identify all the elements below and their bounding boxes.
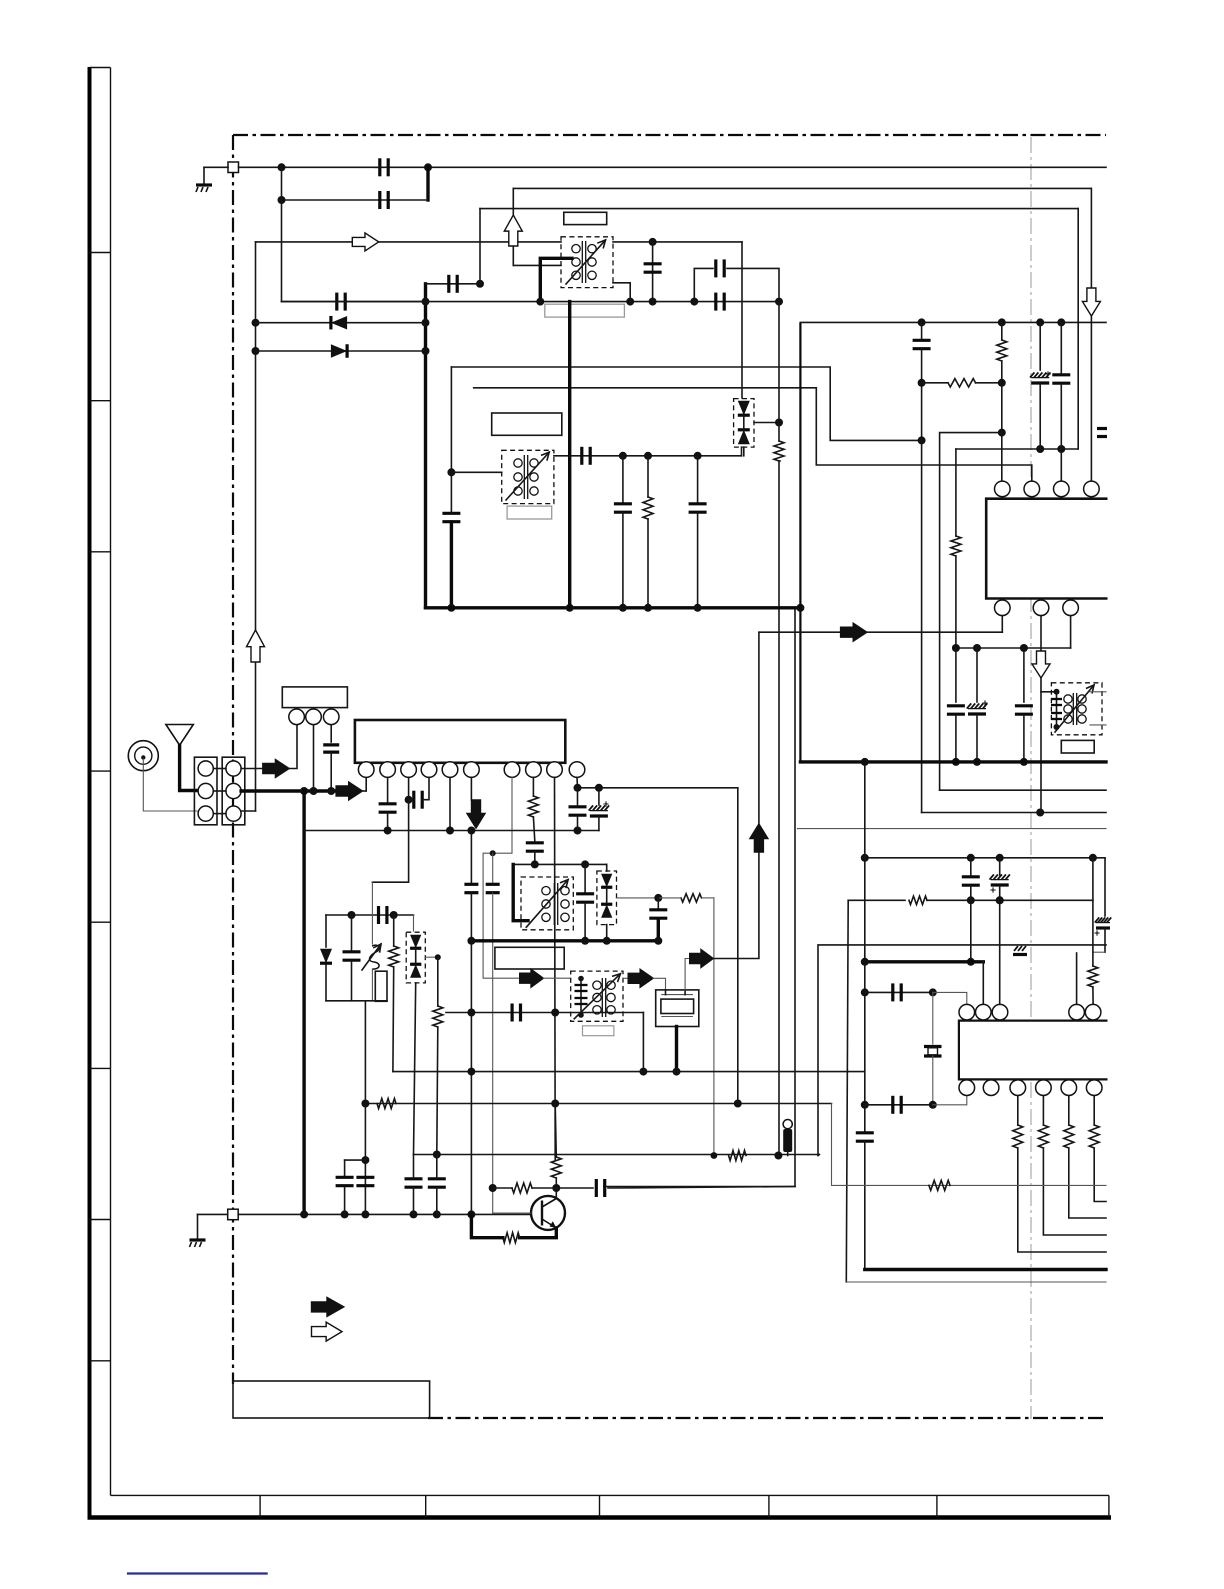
- pin CN2 pin: [226, 761, 241, 776]
- wire: [330, 725, 332, 742]
- IC U3 (stereo decoder, clipped): [959, 1021, 1108, 1080]
- junction: [476, 280, 484, 288]
- junction: [1054, 689, 1060, 695]
- junction: [967, 958, 975, 966]
- junction: [578, 1012, 584, 1018]
- wire: [1023, 715, 1025, 762]
- wire: [281, 167, 283, 301]
- wire: [282, 199, 426, 201]
- capacitor C5: [716, 293, 724, 311]
- wire (bus A): [451, 367, 921, 440]
- wire (coax to jack): [143, 759, 197, 811]
- signal arrow (open, down): [1082, 288, 1100, 316]
- legend arrow (filled): [312, 1297, 344, 1316]
- wire: [955, 715, 957, 762]
- junction: [310, 787, 318, 795]
- wire: [976, 382, 1002, 384]
- pin U3 top pin: [1085, 1004, 1101, 1020]
- diode D4: [738, 430, 750, 444]
- wire: [364, 1001, 366, 1214]
- resistor R6: [528, 796, 538, 817]
- pin U2 top pin: [1084, 481, 1100, 497]
- junction: [998, 379, 1006, 387]
- wire: [351, 961, 353, 1001]
- wire: [685, 959, 690, 990]
- wire: [313, 725, 315, 791]
- capacitor C31: [575, 985, 588, 991]
- wire: [955, 556, 957, 647]
- junction: [422, 347, 430, 355]
- wire: [512, 188, 514, 265]
- wire: [741, 447, 743, 456]
- junction: [467, 1009, 475, 1017]
- wire (thick vertical): [426, 167, 429, 200]
- wire: [1076, 953, 1078, 1004]
- transformer T1 windings (secondary): [588, 245, 596, 280]
- wire (IF): [554, 455, 742, 457]
- signal arrow (filled): [520, 969, 544, 987]
- wire: [436, 1155, 438, 1179]
- junction: [998, 318, 1006, 326]
- wire (rail): [922, 812, 1106, 814]
- junction: [552, 1184, 560, 1192]
- diode D9: [601, 904, 612, 918]
- signal arrow (filled): [690, 950, 714, 968]
- board fold line (grey dash-dot): [1030, 137, 1032, 1419]
- pin U1 pin: [358, 762, 374, 778]
- wire (long vertical): [846, 900, 848, 1282]
- junction: [861, 1101, 869, 1109]
- junction: [531, 860, 539, 868]
- wire (block link): [213, 813, 226, 815]
- wire: [532, 1187, 556, 1189]
- capacitor C24: [526, 843, 544, 851]
- wire: [534, 852, 536, 864]
- wire: [1040, 616, 1042, 651]
- wire: [658, 897, 681, 899]
- wire: [955, 648, 957, 702]
- wire: [976, 715, 978, 762]
- capacitor C28: [343, 952, 361, 960]
- junction: [654, 937, 662, 945]
- wire: [1092, 858, 1094, 966]
- wire: [999, 886, 1001, 1004]
- polarity mark (hatched): [1013, 946, 1027, 955]
- wire: [982, 962, 984, 1004]
- wire: [1039, 384, 1041, 449]
- wire (bus): [940, 433, 1002, 791]
- junction: [775, 298, 783, 306]
- wire (grey): [413, 915, 415, 931]
- resistor R19: [551, 1157, 561, 1178]
- page border tick: [90, 921, 111, 923]
- resistor R14: [1064, 1125, 1074, 1148]
- junction: [361, 1210, 369, 1218]
- wire: [449, 777, 451, 830]
- capacitor C19: [1051, 699, 1062, 705]
- dual diode D3/D4 (dashed): [734, 399, 754, 448]
- capacitor C2: [380, 191, 388, 209]
- signal arrow (open, down): [1032, 651, 1050, 678]
- wire: [754, 422, 779, 424]
- page border tick: [90, 400, 111, 402]
- wire (rail): [832, 1104, 1107, 1186]
- wire: [203, 167, 205, 183]
- pin U3 bottom pin: [1061, 1080, 1077, 1096]
- wire: [606, 925, 608, 941]
- pin U3 bottom pin: [1010, 1080, 1026, 1096]
- wire: [1056, 692, 1058, 727]
- capacitor C6: [644, 264, 662, 272]
- wire (grey): [492, 893, 494, 1213]
- resistor R17: [929, 1180, 950, 1190]
- junction: [1089, 854, 1097, 862]
- wire: [409, 799, 414, 801]
- resistor R9: [681, 894, 702, 902]
- T4 windings (secondary): [561, 887, 569, 922]
- wire (thick vertical): [302, 791, 305, 1214]
- wire (rail): [865, 857, 1105, 859]
- capacitor C9: [582, 447, 590, 465]
- label box: [1061, 740, 1094, 753]
- wire: [576, 777, 579, 787]
- wire: [1060, 384, 1062, 449]
- wire: [450, 472, 452, 513]
- junction: [595, 784, 603, 792]
- wire (osc): [372, 800, 408, 883]
- wire (bus B): [474, 388, 1032, 480]
- capacitor C14: [1052, 375, 1070, 383]
- wire: [617, 897, 659, 899]
- junction: [300, 1210, 308, 1218]
- junction: [1057, 318, 1065, 326]
- wire: [1060, 322, 1062, 374]
- wire (thick ground bus): [800, 760, 1106, 763]
- wire: [413, 1155, 415, 1179]
- wire: [543, 977, 570, 979]
- T5 windings (secondary): [607, 981, 615, 1014]
- resistor R13: [1038, 1125, 1048, 1148]
- junction: [581, 937, 589, 945]
- junction: [447, 604, 455, 612]
- diode D2: [331, 344, 347, 358]
- chassis boundary left (dash-dot): [232, 135, 234, 1384]
- wire: [647, 519, 649, 608]
- wire (thick): [865, 960, 984, 963]
- capacitor C17 (electrolytic): [967, 700, 988, 714]
- wire: [970, 886, 972, 962]
- capacitor C11: [689, 504, 707, 512]
- signal arrow (filled): [263, 760, 289, 778]
- junction: [996, 896, 1004, 904]
- wire: [289, 725, 297, 769]
- transformer T2 (dashed): [1051, 683, 1102, 735]
- pin U2 top pin: [1054, 481, 1070, 497]
- ground: [190, 1240, 206, 1247]
- T4 core: [554, 883, 557, 925]
- wire: [1040, 678, 1042, 813]
- wire: [758, 632, 760, 824]
- pin FL1 pin: [306, 709, 322, 725]
- junction: [1054, 724, 1060, 730]
- wire: [743, 416, 745, 430]
- junction: [348, 911, 356, 919]
- wire: [1093, 1096, 1095, 1126]
- wire: [282, 301, 426, 303]
- wire: [604, 1186, 795, 1188]
- wire: [344, 1160, 346, 1176]
- junction: [278, 163, 286, 171]
- pin U1 pin: [442, 762, 458, 778]
- junction: [536, 298, 544, 306]
- capacitor C16: [947, 706, 965, 714]
- junction: [774, 1152, 782, 1160]
- wire: [1094, 1148, 1106, 1202]
- pin U3 bottom pin: [959, 1080, 975, 1096]
- wire: [927, 899, 1093, 901]
- wire: [513, 863, 607, 865]
- wire: [393, 915, 395, 946]
- wire (long vertical): [554, 777, 557, 1160]
- wire: [375, 166, 380, 168]
- wire: [326, 1000, 387, 1002]
- wire: [713, 828, 759, 959]
- wire to T2: [1041, 691, 1057, 693]
- capacitor C15 (clipped at page edge): [1097, 429, 1107, 437]
- junction: [973, 644, 981, 652]
- wire: [351, 915, 353, 950]
- wire: [598, 788, 600, 805]
- capacitor C32: [575, 998, 588, 1004]
- junction: [694, 604, 702, 612]
- signal arrow (open): [352, 233, 378, 251]
- page border tick: [1108, 1495, 1110, 1517]
- wire: [387, 813, 389, 831]
- junction: [918, 379, 926, 387]
- junction: [405, 796, 413, 804]
- junction: [489, 1184, 497, 1192]
- wire (rail): [940, 789, 1106, 791]
- pin U1 pin: [504, 762, 520, 778]
- junction: [327, 787, 335, 795]
- wire: [694, 268, 713, 301]
- pin U1 pin: [401, 762, 417, 778]
- capacitor C1: [380, 158, 388, 176]
- T3 adjust arrow: [506, 452, 549, 500]
- capacitor C18: [1015, 706, 1033, 714]
- wire (AF rail): [393, 1071, 865, 1073]
- wire: [1104, 858, 1106, 916]
- filter module FL1: [282, 687, 347, 708]
- T5 core: [602, 978, 605, 1017]
- capacitor C10: [614, 504, 632, 512]
- wire: [1018, 1148, 1106, 1252]
- wire: [437, 1027, 438, 1155]
- wire: [606, 864, 608, 871]
- junction: [467, 1068, 475, 1076]
- transformer T3 (dashed): [502, 450, 554, 503]
- junction: [967, 896, 975, 904]
- L1 adjust arrow: [362, 944, 381, 970]
- T1 adjust arrow: [566, 240, 606, 284]
- wire: [613, 283, 630, 302]
- wire: [1093, 951, 1105, 953]
- junction: [996, 896, 1004, 904]
- wire (thick): [675, 1027, 678, 1072]
- wire: [848, 899, 905, 901]
- junction: [551, 1100, 559, 1108]
- wire (grey): [371, 969, 373, 1001]
- page border bottom inner: [111, 1494, 1109, 1496]
- wire: [922, 382, 948, 384]
- junction: [467, 1210, 475, 1218]
- wire: [555, 1178, 557, 1192]
- wire (thick): [657, 919, 660, 941]
- wire: [555, 1192, 557, 1199]
- wire: [921, 322, 923, 340]
- junction: [861, 988, 869, 996]
- resistor R1: [774, 441, 784, 461]
- wire: [1090, 316, 1092, 481]
- signal arrow (open, up): [247, 630, 265, 662]
- junction: [1020, 758, 1028, 766]
- T3 windings (secondary): [530, 459, 538, 495]
- wire: [408, 777, 410, 799]
- wire: [1023, 648, 1025, 702]
- capacitor C43: [428, 1179, 446, 1187]
- pin U3 top pin: [992, 1004, 1008, 1020]
- page border tick: [425, 1495, 427, 1517]
- test point TP1: [569, 762, 585, 778]
- capacitor C29: [576, 894, 594, 902]
- wire (long vertical): [794, 610, 796, 1187]
- wire: [580, 979, 582, 1016]
- junction: [639, 1068, 647, 1076]
- label box: [564, 212, 607, 224]
- junction: [929, 988, 937, 996]
- capacitor C36 (electrolytic): [1094, 917, 1111, 935]
- resistor R10: [909, 896, 927, 904]
- wire (grey): [371, 882, 373, 944]
- wire: [865, 1104, 933, 1106]
- wire (rail): [846, 1281, 1106, 1283]
- padder CT1: [375, 971, 387, 1001]
- wire: [555, 1104, 556, 1158]
- wire (long vertical): [778, 461, 780, 1156]
- wire: [584, 864, 586, 893]
- wire (rail): [513, 187, 1091, 189]
- T2 adjust arrow: [1055, 685, 1094, 732]
- connector block CN2: [222, 757, 245, 825]
- junction: [654, 894, 662, 902]
- wire: [241, 810, 255, 812]
- wire (bus C): [818, 945, 1106, 1156]
- capacitor C27: [379, 906, 387, 924]
- wire: [1077, 209, 1079, 449]
- resistor R15: [1089, 1125, 1099, 1148]
- wire: [665, 990, 667, 995]
- capacitor C30: [649, 910, 667, 918]
- wire: [533, 817, 534, 841]
- wire (ground rail): [238, 1213, 540, 1215]
- wire: [577, 788, 579, 805]
- resistor R21: [503, 1233, 520, 1243]
- T1 core: [582, 241, 585, 283]
- resistor R20: [512, 1183, 532, 1193]
- wire: [204, 166, 228, 168]
- junction: [711, 1152, 718, 1159]
- capacitor C34: [962, 877, 980, 885]
- diode D6: [410, 935, 421, 949]
- page border left (thick): [88, 67, 92, 1519]
- wire: [956, 448, 1078, 450]
- wire: [743, 447, 745, 456]
- page border tick: [768, 1495, 770, 1517]
- wire: [606, 888, 608, 903]
- capacitor C46: [486, 884, 500, 892]
- wire (thick): [241, 789, 336, 792]
- wire: [933, 992, 967, 1004]
- signal arrow (filled, down): [467, 800, 485, 828]
- junction: [649, 298, 657, 306]
- chassis boundary top (dash-dot): [233, 134, 1106, 136]
- wire: [425, 956, 438, 958]
- crystal X1: [924, 992, 942, 1104]
- wire: [727, 268, 779, 301]
- resistor R3: [948, 379, 976, 387]
- junction: [644, 452, 652, 460]
- page border tick: [599, 1495, 601, 1517]
- wire (AM ant signal): [256, 241, 562, 243]
- junction: [446, 827, 454, 835]
- junction: [673, 1068, 681, 1076]
- junction: [361, 1100, 369, 1108]
- wire: [613, 241, 742, 243]
- junction: [578, 976, 584, 982]
- pin FL1 pin: [323, 709, 339, 725]
- capacitor C8: [442, 513, 460, 521]
- wire (block link): [213, 768, 226, 770]
- capacitor C4: [449, 275, 457, 293]
- pin FL1 pin: [289, 709, 305, 725]
- junction: [278, 196, 286, 204]
- wire (grey): [797, 828, 799, 830]
- pin U2 top pin: [1024, 481, 1040, 497]
- capacitor C7: [716, 259, 724, 277]
- wire: [697, 513, 699, 608]
- wire: [1043, 1148, 1106, 1235]
- wire: [415, 949, 417, 964]
- junction: [619, 604, 627, 612]
- wire (AF out): [759, 631, 1002, 633]
- T2 windings (secondary): [1078, 695, 1086, 723]
- IC U1 (AM/FM tuner): [355, 720, 565, 763]
- capacitor C40: [336, 1177, 354, 1185]
- pin U2 bottom pin: [1033, 600, 1049, 616]
- wire: [556, 1187, 593, 1189]
- resistor R4: [997, 340, 1007, 361]
- junction: [734, 1100, 742, 1108]
- wire: [470, 777, 472, 800]
- junction: [861, 958, 869, 966]
- junction: [252, 319, 260, 327]
- signal arrow (filled): [841, 623, 867, 641]
- CF1 inner: [661, 999, 694, 1013]
- junction: [435, 954, 441, 960]
- wire: [330, 753, 332, 791]
- wire: [864, 762, 866, 1131]
- junction: [1036, 445, 1044, 453]
